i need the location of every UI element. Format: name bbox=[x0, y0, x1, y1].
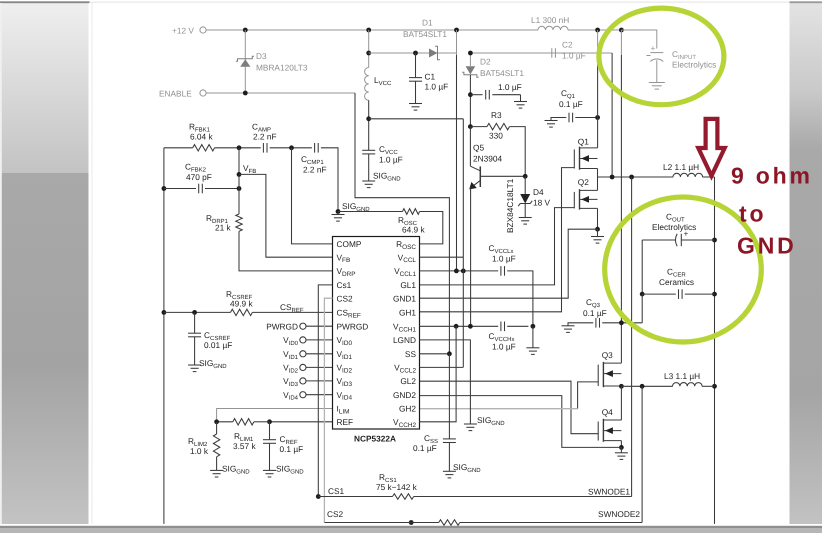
capacitor CCER bbox=[679, 289, 683, 299]
label CINPUT minus bbox=[647, 55, 651, 57]
left sidebar bottom bbox=[0, 173, 89, 524]
node COMP bbox=[237, 145, 242, 150]
terminal V bbox=[300, 392, 306, 398]
wire D1 row bbox=[369, 52, 457, 54]
wire ROSC to IC bbox=[420, 212, 443, 244]
capacitor CQ3 bbox=[596, 318, 600, 328]
node SIGGND rosc bbox=[336, 209, 341, 214]
op-amp U1 NCP5322A box bbox=[333, 237, 420, 430]
wire GH2 riser to Q3 gate bbox=[578, 382, 599, 409]
capacitor CVCC bbox=[362, 150, 375, 154]
ground LGND bbox=[464, 424, 477, 431]
wire RCSREF left bbox=[164, 311, 231, 313]
ground CVCCHx bbox=[526, 348, 539, 355]
node CVCCHx right bbox=[531, 324, 536, 329]
svg-text:1.0 µF: 1.0 µF bbox=[562, 51, 586, 61]
+12V terminal bbox=[200, 27, 206, 33]
wire SWNODE2 row right bbox=[702, 385, 715, 387]
bottom bar dark line bbox=[0, 526, 822, 528]
ground CCSREF bbox=[188, 365, 201, 372]
svg-text:SWNODE2: SWNODE2 bbox=[598, 509, 640, 519]
resistor ROSC bbox=[403, 209, 420, 215]
resistor RLIM2 bbox=[213, 434, 219, 457]
svg-text:Q5: Q5 bbox=[473, 143, 484, 153]
svg-text:49.9 k: 49.9 k bbox=[230, 299, 253, 309]
bottom bar bbox=[0, 528, 822, 533]
svg-text:ENABLE: ENABLE bbox=[159, 89, 192, 99]
wire CVCCHx gnd stem bbox=[532, 326, 534, 348]
svg-text:1.0 µF: 1.0 µF bbox=[492, 342, 516, 352]
wire Cs1 riser bbox=[318, 285, 332, 497]
svg-text:NCP5322A: NCP5322A bbox=[354, 434, 396, 444]
wire CS1 right seg bbox=[414, 496, 632, 498]
left sidebar top dark line bbox=[0, 1, 90, 3]
wire RFBK1 to CAMP bbox=[215, 147, 261, 149]
svg-text:GH2: GH2 bbox=[399, 404, 416, 414]
svg-text:MBRA120LT3: MBRA120LT3 bbox=[256, 63, 308, 73]
wire V to IC bbox=[306, 366, 333, 368]
ground CSS bbox=[443, 471, 456, 478]
wire ILIM bbox=[217, 409, 333, 422]
node Q3 drain rail top bbox=[619, 28, 624, 33]
ground Q2 bbox=[591, 237, 604, 244]
node CS2 riser bbox=[640, 384, 645, 389]
wire to CINPUT bbox=[621, 30, 656, 49]
wire D2 top bbox=[469, 53, 471, 66]
svg-text:1.0 µF: 1.0 µF bbox=[498, 82, 522, 92]
node Q1 drain rail top bbox=[595, 28, 600, 33]
svg-text:Electrolytics: Electrolytics bbox=[652, 222, 696, 232]
svg-text:PWRGD: PWRGD bbox=[266, 321, 298, 331]
wire VCCL1 row bbox=[420, 270, 499, 272]
wire R3 left bbox=[470, 126, 487, 128]
node cap 1uF bbox=[468, 92, 473, 97]
ground CQ3 bbox=[562, 326, 575, 333]
node CREF bbox=[267, 419, 272, 424]
wire VCCH1 row bbox=[420, 325, 499, 327]
svg-text:1.0 µF: 1.0 µF bbox=[379, 155, 403, 165]
terminal V bbox=[300, 364, 306, 370]
svg-text:L3 1.1 µH: L3 1.1 µH bbox=[664, 371, 700, 381]
wire C2 row bbox=[470, 52, 612, 54]
wire VOUT rail bbox=[714, 177, 716, 524]
wire D1 cathode rail bbox=[456, 30, 458, 55]
ground CQ1 bbox=[545, 121, 558, 128]
resistor RLIM1 bbox=[233, 419, 254, 425]
wire Q2 drain bbox=[597, 177, 599, 190]
wire V to IC bbox=[306, 339, 333, 341]
svg-text:CS1: CS1 bbox=[328, 486, 345, 496]
wire CQ3 gnd stem bbox=[568, 323, 574, 326]
svg-text:Q3: Q3 bbox=[602, 350, 613, 360]
node ENABLE/D3 bbox=[243, 91, 248, 96]
wire D4 bottom bbox=[524, 204, 526, 218]
node CCSREF bbox=[192, 310, 197, 315]
capacitor CVCCLx bbox=[501, 266, 505, 276]
wire CCER right seg bbox=[685, 293, 715, 295]
svg-text:C1: C1 bbox=[425, 72, 436, 82]
wire D1 rail down bbox=[456, 55, 458, 271]
svg-text:Q2: Q2 bbox=[578, 177, 589, 187]
wire Q1 drain rail bbox=[597, 53, 599, 148]
capacitor CVCCHx bbox=[501, 322, 505, 332]
wire SWNODE1 to CS1 bbox=[631, 177, 633, 497]
node VFB bbox=[237, 172, 242, 177]
ENABLE terminal bbox=[200, 90, 206, 96]
right sidebar bbox=[790, 3, 822, 524]
svg-text:0.1 µF: 0.1 µF bbox=[280, 444, 304, 454]
capacitor CCSREF bbox=[188, 333, 201, 337]
svg-text:2.2 nF: 2.2 nF bbox=[253, 132, 277, 142]
node CS1 riser bbox=[629, 175, 634, 180]
wire CQ1 gnd stem bbox=[551, 118, 557, 121]
ground CREF bbox=[263, 470, 276, 477]
inductor L2 bbox=[673, 173, 703, 177]
node Q2 source gnd bbox=[595, 227, 600, 232]
wire RFBK1 left bbox=[164, 147, 193, 149]
svg-text:Ceramics: Ceramics bbox=[659, 277, 694, 287]
ground SIGGND rosc bbox=[332, 215, 345, 222]
node CS2 mid bbox=[409, 520, 414, 525]
wire VCCL rail bbox=[462, 119, 464, 368]
capacitor CREF bbox=[263, 440, 276, 444]
inductor LVCC bbox=[365, 68, 369, 101]
wire C2 riser to SWNODE1 bbox=[611, 53, 613, 177]
capacitor CINPUT electrolytic bbox=[650, 53, 663, 62]
svg-text:SWNODE1: SWNODE1 bbox=[588, 487, 630, 497]
diode D3 MBRA120LT3 bbox=[236, 56, 254, 67]
node CQ1 rail bbox=[595, 115, 600, 120]
svg-text:1.0 µF: 1.0 µF bbox=[492, 254, 516, 264]
svg-text:Electrolytics: Electrolytics bbox=[672, 60, 716, 70]
wire cap 1uF right bbox=[492, 94, 520, 96]
ground D4 bbox=[519, 218, 532, 225]
left sidebar top gradient bbox=[0, 3, 89, 173]
wire LVCC top bbox=[368, 30, 370, 68]
svg-text:L1 300 nH: L1 300 nH bbox=[531, 15, 569, 25]
wire Q4 drain bbox=[620, 386, 622, 420]
wire LGND bbox=[420, 340, 471, 424]
svg-text:to: to bbox=[739, 201, 766, 227]
svg-text:3.57 k: 3.57 k bbox=[233, 441, 256, 451]
svg-text:470 pF: 470 pF bbox=[186, 172, 212, 182]
left bar white edge bbox=[0, 3, 2, 524]
ground C1 bbox=[409, 104, 422, 111]
wire CREF bottom bbox=[269, 443, 271, 470]
wire SWNODE1 row right bbox=[702, 176, 714, 178]
ground cap 1uF bbox=[514, 102, 527, 109]
wire Q2 gnd stem bbox=[597, 229, 599, 236]
svg-text:REF: REF bbox=[337, 417, 354, 427]
node D3 top bbox=[243, 28, 248, 33]
svg-text:21 k: 21 k bbox=[215, 223, 232, 233]
svg-text:+12 V: +12 V bbox=[172, 26, 194, 36]
svg-text:CS2: CS2 bbox=[327, 509, 344, 519]
wire ENABLE to SS bbox=[355, 93, 449, 354]
svg-text:SS: SS bbox=[405, 349, 417, 359]
node C1 bbox=[413, 51, 418, 56]
node C2/D2 bbox=[468, 51, 473, 56]
ground RLIM2 bbox=[210, 470, 223, 477]
svg-text:D4: D4 bbox=[533, 187, 544, 197]
wire CAMP to CCMP1 bbox=[270, 147, 312, 149]
wire Q3 source bbox=[620, 385, 622, 387]
svg-text:BAT54SLT1: BAT54SLT1 bbox=[480, 68, 524, 78]
svg-text:Q1: Q1 bbox=[578, 137, 589, 147]
svg-text:18 V: 18 V bbox=[533, 198, 551, 208]
svg-text:GND: GND bbox=[737, 233, 797, 259]
capacitor CCMP1 bbox=[315, 143, 319, 153]
node LVCC top bbox=[366, 28, 371, 33]
transistor Q4 bbox=[598, 419, 621, 442]
svg-text:Cs1: Cs1 bbox=[337, 280, 352, 290]
diode D1 BAT54SLT1 bbox=[429, 46, 440, 59]
wire SS to CSS bbox=[448, 354, 450, 439]
wire GND1 to Q2 source bbox=[420, 229, 598, 298]
wire VDRP to IC bbox=[239, 231, 333, 271]
wire Q4 source bbox=[620, 441, 622, 448]
annotation green circle CINPUT bbox=[599, 8, 724, 105]
wire VCCH2 bbox=[420, 326, 457, 422]
wire CREF top bbox=[269, 422, 271, 440]
capacitor C2 bbox=[552, 48, 556, 58]
svg-text:PWRGD: PWRGD bbox=[337, 322, 369, 332]
transistor Q5 bbox=[469, 127, 525, 190]
node R3 bbox=[468, 124, 473, 129]
wire +12V top rail bbox=[206, 29, 538, 31]
svg-text:GND1: GND1 bbox=[393, 293, 416, 303]
wire RLIM2 top bbox=[216, 422, 218, 434]
wire Q1 drain rail top bbox=[597, 30, 599, 53]
wire SWNODE2 row bbox=[621, 385, 672, 387]
inductor L1 bbox=[538, 26, 568, 30]
wire Q5 emitter rail bbox=[470, 188, 472, 326]
wire V to IC bbox=[306, 380, 333, 382]
wire CVCCLx right bbox=[507, 271, 533, 326]
capacitor CFBK2 bbox=[199, 184, 203, 194]
svg-text:D1: D1 bbox=[422, 18, 433, 28]
svg-text:CS2: CS2 bbox=[337, 293, 354, 303]
resistor RCS2 bbox=[439, 520, 460, 526]
transistor Q2 bbox=[574, 189, 597, 209]
svg-text:1.0 k: 1.0 k bbox=[190, 446, 209, 456]
svg-text:64.9 k: 64.9 k bbox=[402, 225, 425, 235]
capacitor CAMP bbox=[263, 143, 267, 153]
terminal V bbox=[300, 378, 306, 384]
wire REF right bbox=[270, 421, 333, 423]
node SWNODE2 bbox=[619, 384, 624, 389]
wire CQ3 right bbox=[602, 322, 642, 324]
wire VOUT feedback rail bbox=[163, 148, 165, 524]
node C2 pump bbox=[610, 175, 615, 180]
node CCER left bbox=[640, 292, 645, 297]
node Q5 emitter rail bbox=[468, 324, 473, 329]
top middle faint line bbox=[90, 1, 790, 4]
svg-text:+: + bbox=[651, 43, 656, 53]
wire CCER left down bbox=[641, 294, 643, 323]
wire Q3 drain rail top bbox=[620, 30, 622, 55]
svg-text:D2: D2 bbox=[480, 57, 491, 67]
capacitor 1.0uF VCCH bbox=[486, 90, 490, 100]
transistor Q3 bbox=[598, 362, 621, 387]
wire CS2 right seg bbox=[460, 522, 642, 524]
capacitor COUT electrolytic bbox=[675, 234, 681, 246]
svg-text:Q4: Q4 bbox=[602, 407, 613, 417]
wire GND2 to Q4 source bbox=[420, 396, 622, 448]
wire GH2 row gray bbox=[420, 408, 578, 410]
wire CFBK2 left bbox=[164, 188, 196, 190]
terminal V bbox=[300, 351, 306, 357]
wire CVCCHx right seg bbox=[507, 325, 528, 327]
terminal V bbox=[300, 337, 306, 343]
transistor Q1 bbox=[574, 147, 597, 170]
node CQ3 rail bbox=[619, 320, 624, 325]
svg-text:2.2 nF: 2.2 nF bbox=[303, 165, 327, 175]
wire COMP to IC bbox=[292, 148, 333, 244]
svg-text:C2: C2 bbox=[562, 40, 573, 50]
svg-text:BZX84C18LT1: BZX84C18LT1 bbox=[505, 178, 515, 233]
wire CCSREF bottom bbox=[194, 337, 196, 365]
diode D2 BAT54SLT1 bbox=[462, 66, 478, 77]
wire LVCC to CVCC bbox=[368, 100, 370, 150]
svg-text:9 ohm: 9 ohm bbox=[731, 163, 813, 189]
node VCCH rail bbox=[454, 324, 459, 329]
ground Q4 bbox=[615, 453, 628, 460]
wire CCMP1 to SIGGND bbox=[321, 148, 338, 212]
wire CS2 left seg bbox=[324, 522, 438, 524]
wire CCSREF top bbox=[194, 312, 196, 333]
svg-text:BAT54SLT1: BAT54SLT1 bbox=[403, 29, 447, 39]
wire C1 top bbox=[415, 53, 417, 78]
node L3 right bbox=[712, 384, 717, 389]
wire V to IC bbox=[306, 394, 333, 396]
wire D3 vertical bbox=[244, 30, 246, 93]
node CCER right bbox=[712, 292, 717, 297]
wire Q1 source bbox=[597, 169, 599, 178]
resistor RDRP1 bbox=[236, 214, 242, 231]
annotation green circle COUT bbox=[605, 197, 762, 342]
wire CSS bottom bbox=[448, 443, 450, 472]
node RCSREF left bbox=[162, 310, 167, 315]
resistor RCS1 bbox=[393, 494, 414, 500]
wire CINPUT to gnd bbox=[656, 60, 658, 82]
svg-text:GL2: GL2 bbox=[400, 376, 416, 386]
wire COUT left bbox=[642, 239, 676, 241]
wire CQ1 right bbox=[575, 117, 597, 119]
node ILIM divider bbox=[214, 419, 219, 424]
right sidebar top line bbox=[790, 1, 822, 3]
resistor RFBK1 bbox=[193, 145, 215, 151]
wire VCCL2 row bbox=[420, 366, 464, 368]
node CS1 left bbox=[316, 494, 321, 499]
node VFB/CFBK2 bbox=[237, 186, 242, 191]
resistor RCSREF bbox=[231, 309, 253, 315]
wire RLIM2 bottom bbox=[216, 457, 218, 471]
svg-text:COMP: COMP bbox=[337, 239, 362, 249]
resistor R3 bbox=[487, 123, 510, 129]
ground CINPUT bbox=[649, 83, 665, 90]
wire RLIM1 left bbox=[217, 421, 233, 423]
wire PWRGD to IC bbox=[306, 325, 333, 327]
wire GL1 to Q2 gate bbox=[420, 208, 575, 285]
node VCCL branch bbox=[366, 116, 371, 121]
wire SS row bbox=[420, 353, 450, 355]
svg-text:1.0 µF: 1.0 µF bbox=[425, 82, 449, 92]
wire SWNODE2 to CS2 bbox=[641, 386, 643, 522]
node SS bbox=[447, 351, 452, 356]
capacitor CQ1 bbox=[569, 113, 573, 123]
wire V to IC bbox=[306, 353, 333, 355]
terminal PWRGD bbox=[300, 323, 306, 329]
svg-text:GH1: GH1 bbox=[399, 308, 416, 318]
page left faint edge bbox=[92, 3, 93, 524]
svg-text:330: 330 bbox=[489, 131, 503, 141]
wire cap 1uF gnd stem bbox=[520, 95, 522, 102]
annotation red arrow bbox=[698, 119, 724, 176]
node COMP2 bbox=[289, 145, 294, 150]
wire CSREF to IC bbox=[252, 311, 332, 313]
node D1 row bbox=[366, 51, 371, 56]
wire LVCC row to VCCL rail bbox=[369, 118, 464, 120]
node Q4 source gnd bbox=[619, 445, 624, 450]
svg-text:0.1 µF: 0.1 µF bbox=[583, 308, 607, 318]
wire REF mid bbox=[254, 421, 270, 423]
wire CS1 left seg bbox=[318, 496, 392, 498]
node VCCL pin bbox=[461, 269, 466, 274]
wire D2 to R3 bbox=[469, 75, 471, 127]
wire COUT-CCER left bbox=[641, 240, 643, 294]
svg-text:0.1 µF: 0.1 µF bbox=[413, 443, 437, 453]
wire CQ3 left bbox=[574, 322, 593, 324]
wire +12V top rail right bbox=[568, 29, 622, 31]
svg-text:75 k−142 k: 75 k−142 k bbox=[376, 482, 418, 492]
wire VCCL row bbox=[420, 256, 464, 258]
wire CFBK2 right bbox=[205, 188, 239, 190]
inductor L3 bbox=[673, 383, 703, 387]
wire cap 1uF left bbox=[470, 94, 482, 96]
svg-text:D3: D3 bbox=[256, 51, 267, 61]
svg-text:LGND: LGND bbox=[393, 335, 416, 345]
wire Q4 gnd stem bbox=[620, 447, 622, 452]
wire ROSC row left bbox=[338, 211, 403, 213]
capacitor CSS bbox=[443, 439, 456, 443]
wire ENABLE bbox=[206, 92, 355, 94]
node D1 rail join bbox=[454, 269, 459, 274]
wire VFB to IC bbox=[239, 174, 333, 257]
wire Q3 drain rail bbox=[620, 55, 622, 363]
wire GL2 to Q4 gate bbox=[420, 381, 599, 434]
svg-text:0.01 µF: 0.01 µF bbox=[204, 340, 232, 350]
zener D4 BZX84C18LT1 bbox=[518, 194, 532, 206]
svg-text:R3: R3 bbox=[491, 110, 502, 120]
svg-text:0.1 µF: 0.1 µF bbox=[559, 99, 583, 109]
svg-text:GND2: GND2 bbox=[393, 390, 416, 400]
ground CVCC bbox=[362, 181, 375, 188]
wire R3 to D4 node bbox=[510, 127, 526, 177]
wire C1 bottom bbox=[415, 81, 417, 103]
wire VFB vertical bbox=[238, 148, 240, 214]
wire Q2 source bbox=[597, 208, 599, 229]
wire CCER left seg bbox=[642, 293, 676, 295]
svg-text:GL1: GL1 bbox=[400, 280, 416, 290]
wire SWNODE1 row bbox=[598, 176, 674, 178]
capacitor C1 bbox=[409, 78, 422, 82]
wire CS2 riser bbox=[324, 298, 332, 522]
wire D4 top bbox=[524, 176, 526, 194]
svg-text:2N3904: 2N3904 bbox=[473, 154, 502, 164]
svg-text:6.04 k: 6.04 k bbox=[190, 132, 213, 142]
node D1 rail top bbox=[454, 28, 459, 33]
